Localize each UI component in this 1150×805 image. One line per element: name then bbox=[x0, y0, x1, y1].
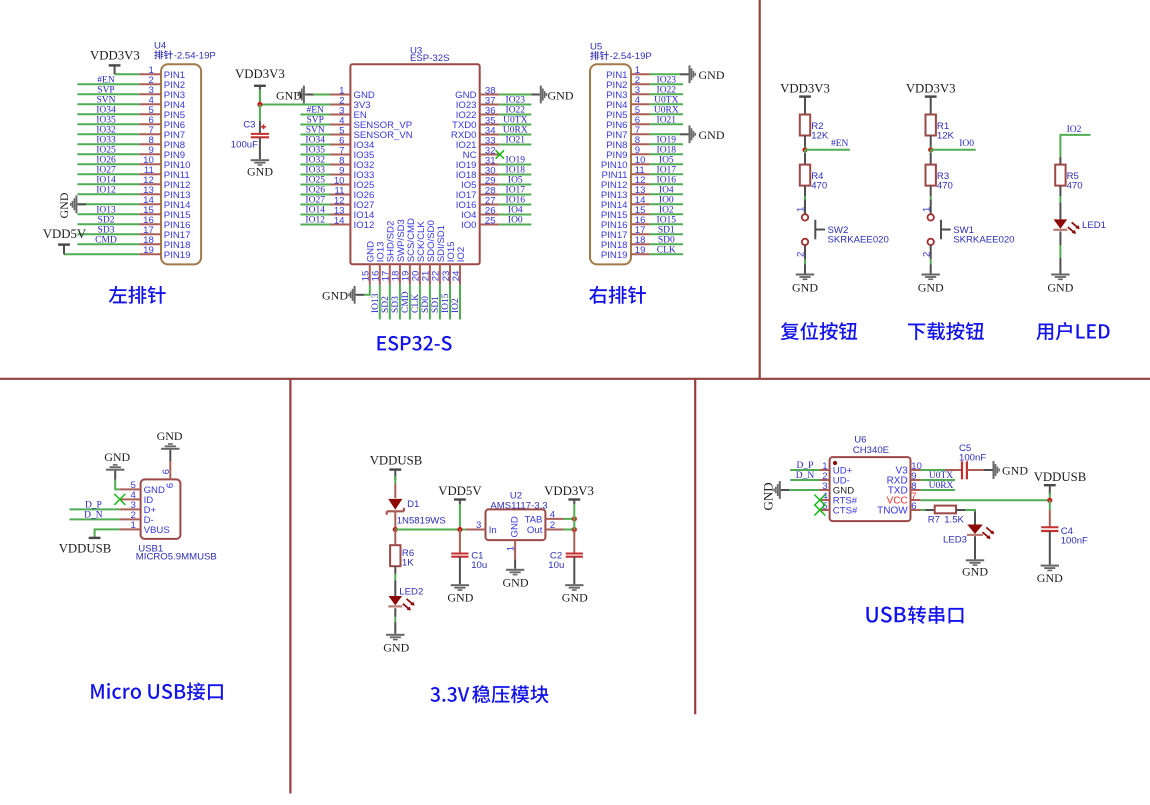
svg-text:IO0: IO0 bbox=[959, 139, 974, 149]
svg-text:VDD3V3: VDD3V3 bbox=[906, 82, 956, 96]
svg-text:IO4: IO4 bbox=[508, 206, 523, 216]
svg-text:LED3: LED3 bbox=[943, 535, 967, 546]
svg-text:CH340E: CH340E bbox=[853, 445, 889, 456]
svg-text:100nF: 100nF bbox=[959, 452, 986, 463]
svg-text:SD2: SD2 bbox=[98, 216, 115, 226]
svg-text:LED2: LED2 bbox=[399, 587, 423, 598]
svg-text:D1: D1 bbox=[407, 499, 419, 510]
svg-text:TXD0: TXD0 bbox=[452, 120, 477, 131]
svg-text:U0TX: U0TX bbox=[929, 471, 953, 481]
svg-text:GND: GND bbox=[699, 68, 725, 82]
svg-text:CTS#: CTS# bbox=[833, 506, 858, 517]
svg-text:IO4: IO4 bbox=[659, 186, 674, 196]
svg-text:VDDUSB: VDDUSB bbox=[370, 454, 423, 468]
svg-text:SVP: SVP bbox=[97, 86, 114, 96]
svg-text:IO32: IO32 bbox=[305, 156, 325, 166]
svg-text:IO0: IO0 bbox=[508, 216, 523, 226]
svg-text:GND: GND bbox=[447, 591, 473, 605]
svg-text:IO12: IO12 bbox=[305, 216, 325, 226]
svg-text:1N5819WS: 1N5819WS bbox=[397, 516, 446, 527]
svg-text:MICRO5.9MMUSB: MICRO5.9MMUSB bbox=[136, 552, 217, 563]
svg-text:ESP-32S: ESP-32S bbox=[410, 53, 449, 64]
svg-text:VDD3V3: VDD3V3 bbox=[235, 67, 285, 81]
svg-text:IO34: IO34 bbox=[305, 136, 325, 146]
svg-text:GND: GND bbox=[57, 192, 71, 218]
svg-text:1: 1 bbox=[921, 207, 932, 212]
svg-text:2: 2 bbox=[130, 510, 135, 521]
svg-text:5: 5 bbox=[130, 480, 135, 491]
svg-text:IO14: IO14 bbox=[96, 176, 116, 186]
svg-text:27: 27 bbox=[485, 195, 496, 206]
svg-text:GND: GND bbox=[1002, 464, 1028, 478]
svg-text:PIN19: PIN19 bbox=[601, 250, 628, 261]
svg-text:U0RX: U0RX bbox=[503, 126, 528, 136]
svg-text:IO19: IO19 bbox=[657, 136, 677, 146]
svg-text:SD0: SD0 bbox=[658, 236, 675, 246]
svg-text:D_P: D_P bbox=[797, 461, 814, 471]
svg-text:1K: 1K bbox=[402, 557, 414, 568]
svg-text:1: 1 bbox=[506, 546, 517, 551]
svg-text:IO35: IO35 bbox=[305, 146, 325, 156]
svg-text:GND: GND bbox=[247, 164, 273, 178]
svg-text:37: 37 bbox=[485, 95, 496, 106]
svg-text:IO18: IO18 bbox=[657, 146, 677, 156]
svg-text:IO17: IO17 bbox=[657, 166, 677, 176]
svg-text:GND: GND bbox=[276, 89, 302, 103]
svg-text:26: 26 bbox=[485, 205, 496, 216]
svg-text:IO18: IO18 bbox=[506, 166, 526, 176]
svg-text:IO18: IO18 bbox=[456, 170, 477, 181]
svg-text:470: 470 bbox=[1067, 180, 1083, 191]
svg-text:IO16: IO16 bbox=[456, 200, 477, 211]
svg-text:GND: GND bbox=[918, 280, 944, 294]
svg-text:GND: GND bbox=[962, 564, 988, 578]
svg-text:VDDUSB: VDDUSB bbox=[59, 541, 112, 555]
svg-text:#EN: #EN bbox=[97, 76, 115, 86]
svg-text:10u: 10u bbox=[471, 560, 487, 571]
svg-text:IO5: IO5 bbox=[461, 180, 476, 191]
svg-text:U6: U6 bbox=[854, 434, 866, 445]
svg-text:IO22: IO22 bbox=[456, 110, 477, 121]
svg-text:IO26: IO26 bbox=[96, 156, 116, 166]
svg-text:12K: 12K bbox=[811, 130, 829, 141]
svg-text:VDDUSB: VDDUSB bbox=[1034, 470, 1087, 484]
svg-text:1: 1 bbox=[796, 207, 807, 212]
svg-text:CMD: CMD bbox=[95, 236, 117, 246]
svg-text:IO33: IO33 bbox=[305, 166, 325, 176]
svg-text:-2.54-19P: -2.54-19P bbox=[610, 51, 652, 62]
svg-text:GND: GND bbox=[157, 429, 183, 443]
svg-text:-2.54-19P: -2.54-19P bbox=[174, 50, 216, 61]
svg-text:VDD3V3: VDD3V3 bbox=[780, 82, 830, 96]
svg-text:33: 33 bbox=[485, 135, 496, 146]
svg-text:PIN19: PIN19 bbox=[164, 250, 191, 261]
svg-text:25: 25 bbox=[485, 215, 496, 226]
svg-text:D_P: D_P bbox=[85, 501, 102, 511]
svg-text:U5: U5 bbox=[590, 42, 602, 53]
svg-text:U0TX: U0TX bbox=[654, 96, 678, 106]
svg-text:IO25: IO25 bbox=[96, 146, 116, 156]
svg-text:32: 32 bbox=[485, 145, 496, 156]
svg-text:LED1: LED1 bbox=[1082, 220, 1106, 231]
svg-text:6: 6 bbox=[161, 469, 172, 474]
svg-text:IO35: IO35 bbox=[96, 116, 116, 126]
svg-text:SKRKAEE020: SKRKAEE020 bbox=[828, 235, 889, 246]
svg-text:U4: U4 bbox=[154, 41, 167, 52]
svg-text:IO23: IO23 bbox=[506, 96, 526, 106]
svg-text:SD0: SD0 bbox=[421, 296, 431, 313]
svg-text:12K: 12K bbox=[937, 130, 955, 141]
svg-text:6: 6 bbox=[165, 483, 176, 488]
svg-text:Out: Out bbox=[527, 525, 543, 536]
svg-text:ID: ID bbox=[144, 495, 154, 506]
svg-text:NC: NC bbox=[463, 150, 477, 161]
svg-text:SD3: SD3 bbox=[391, 296, 401, 313]
svg-text:GND: GND bbox=[548, 89, 574, 103]
svg-text:IO34: IO34 bbox=[96, 106, 116, 116]
svg-text:34: 34 bbox=[485, 125, 496, 136]
svg-text:IO2: IO2 bbox=[659, 206, 674, 216]
svg-text:IO12: IO12 bbox=[354, 220, 375, 231]
svg-text:SVN: SVN bbox=[306, 126, 325, 136]
svg-text:IO23: IO23 bbox=[657, 76, 677, 86]
svg-text:GND: GND bbox=[383, 640, 409, 654]
svg-text:IO22: IO22 bbox=[506, 106, 526, 116]
svg-text:CMD: CMD bbox=[401, 291, 411, 313]
svg-text:IO5: IO5 bbox=[659, 156, 674, 166]
svg-text:GND: GND bbox=[455, 90, 476, 101]
svg-text:IO0: IO0 bbox=[659, 196, 674, 206]
svg-text:IO0: IO0 bbox=[461, 220, 476, 231]
svg-text:SD2: SD2 bbox=[381, 296, 391, 313]
svg-text:IO32: IO32 bbox=[96, 126, 116, 136]
svg-text:4: 4 bbox=[130, 490, 136, 501]
svg-text:IO13: IO13 bbox=[371, 293, 381, 313]
svg-text:GND: GND bbox=[792, 280, 818, 294]
svg-text:SVP: SVP bbox=[306, 116, 323, 126]
svg-text:GND: GND bbox=[760, 482, 775, 510]
svg-text:TAB: TAB bbox=[524, 515, 542, 526]
svg-text:10u: 10u bbox=[548, 560, 564, 571]
svg-text:R7: R7 bbox=[928, 514, 940, 525]
svg-text:D+: D+ bbox=[144, 505, 157, 516]
svg-text:IO15: IO15 bbox=[657, 216, 677, 226]
svg-text:IO2: IO2 bbox=[451, 298, 461, 313]
svg-text:IO19: IO19 bbox=[456, 160, 477, 171]
svg-text:VDD3V3: VDD3V3 bbox=[544, 484, 594, 498]
svg-text:28: 28 bbox=[485, 185, 496, 196]
svg-text:U0RX: U0RX bbox=[654, 106, 679, 116]
svg-text:VDD5V: VDD5V bbox=[43, 227, 87, 241]
svg-text:IO15: IO15 bbox=[441, 293, 451, 313]
svg-text:35: 35 bbox=[485, 115, 496, 126]
svg-text:IO27: IO27 bbox=[305, 196, 325, 206]
svg-text:1.5K: 1.5K bbox=[944, 514, 964, 525]
svg-text:#EN: #EN bbox=[831, 139, 849, 149]
svg-text:IO33: IO33 bbox=[96, 136, 116, 146]
svg-text:IO16: IO16 bbox=[506, 196, 526, 206]
svg-text:RXD0: RXD0 bbox=[451, 130, 477, 141]
svg-text:100nF: 100nF bbox=[1061, 535, 1088, 546]
svg-text:U0RX: U0RX bbox=[929, 481, 954, 491]
svg-text:IO14: IO14 bbox=[305, 206, 325, 216]
svg-text:IO4: IO4 bbox=[461, 210, 477, 221]
svg-text:470: 470 bbox=[811, 180, 827, 191]
svg-text:VBUS: VBUS bbox=[144, 525, 170, 536]
svg-text:D-: D- bbox=[144, 515, 154, 526]
svg-text:TNOW: TNOW bbox=[877, 506, 908, 517]
svg-text:GND: GND bbox=[562, 591, 588, 605]
svg-text:IO21: IO21 bbox=[657, 116, 677, 126]
svg-text:GND: GND bbox=[1047, 280, 1073, 294]
svg-text:IO5: IO5 bbox=[508, 176, 523, 186]
svg-text:GND: GND bbox=[699, 128, 725, 142]
svg-text:19: 19 bbox=[635, 245, 646, 256]
svg-text:38: 38 bbox=[485, 85, 496, 96]
svg-text:GND: GND bbox=[1037, 571, 1063, 585]
svg-text:IO21: IO21 bbox=[506, 136, 526, 146]
svg-text:VDD3V3: VDD3V3 bbox=[90, 48, 140, 62]
svg-text:GND: GND bbox=[509, 516, 520, 537]
svg-text:29: 29 bbox=[485, 175, 496, 186]
svg-text:GND: GND bbox=[104, 450, 130, 464]
svg-text:D_N: D_N bbox=[84, 511, 103, 521]
svg-text:1: 1 bbox=[130, 520, 135, 531]
svg-text:IO21: IO21 bbox=[456, 140, 477, 151]
svg-text:SKRKAEE020: SKRKAEE020 bbox=[953, 235, 1014, 246]
svg-text:IO12: IO12 bbox=[96, 186, 116, 196]
svg-text:2: 2 bbox=[550, 520, 555, 531]
svg-text:GND: GND bbox=[144, 485, 165, 496]
svg-text:SVN: SVN bbox=[96, 96, 115, 106]
svg-text:IO25: IO25 bbox=[305, 176, 325, 186]
svg-text:D_N: D_N bbox=[796, 471, 815, 481]
svg-text:IO19: IO19 bbox=[506, 156, 526, 166]
svg-text:U0TX: U0TX bbox=[503, 116, 527, 126]
svg-text:IO27: IO27 bbox=[96, 166, 116, 176]
svg-text:C3: C3 bbox=[243, 120, 255, 131]
svg-text:GND: GND bbox=[322, 288, 348, 302]
svg-text:30: 30 bbox=[485, 165, 496, 176]
svg-text:VDD5V: VDD5V bbox=[438, 484, 482, 498]
svg-text:3: 3 bbox=[130, 500, 135, 511]
svg-text:IO2: IO2 bbox=[456, 247, 467, 262]
svg-text:AMS1117-3.3: AMS1117-3.3 bbox=[490, 500, 547, 511]
svg-text:#EN: #EN bbox=[306, 106, 324, 116]
svg-text:CLK: CLK bbox=[657, 246, 676, 256]
svg-text:SD1: SD1 bbox=[658, 226, 675, 236]
svg-text:CLK: CLK bbox=[411, 294, 421, 313]
svg-text:SD1: SD1 bbox=[431, 296, 441, 313]
svg-text:4: 4 bbox=[550, 510, 556, 521]
svg-text:IO22: IO22 bbox=[657, 86, 677, 96]
svg-text:In: In bbox=[489, 525, 497, 536]
svg-text:IO13: IO13 bbox=[96, 206, 116, 216]
svg-text:IO23: IO23 bbox=[456, 100, 477, 111]
svg-text:100uF: 100uF bbox=[231, 140, 258, 151]
svg-text:IO2: IO2 bbox=[1067, 125, 1082, 135]
svg-text:36: 36 bbox=[485, 105, 496, 116]
svg-text:470: 470 bbox=[937, 180, 953, 191]
svg-text:IO17: IO17 bbox=[506, 186, 526, 196]
svg-text:19: 19 bbox=[143, 245, 154, 256]
svg-text:IO17: IO17 bbox=[456, 190, 477, 201]
svg-text:14: 14 bbox=[334, 215, 345, 226]
svg-text:IO26: IO26 bbox=[305, 186, 325, 196]
svg-text:IO16: IO16 bbox=[657, 176, 677, 186]
svg-text:31: 31 bbox=[485, 155, 496, 166]
svg-text:24: 24 bbox=[451, 270, 462, 281]
svg-text:GND: GND bbox=[503, 575, 529, 589]
svg-text:SD3: SD3 bbox=[98, 226, 115, 236]
